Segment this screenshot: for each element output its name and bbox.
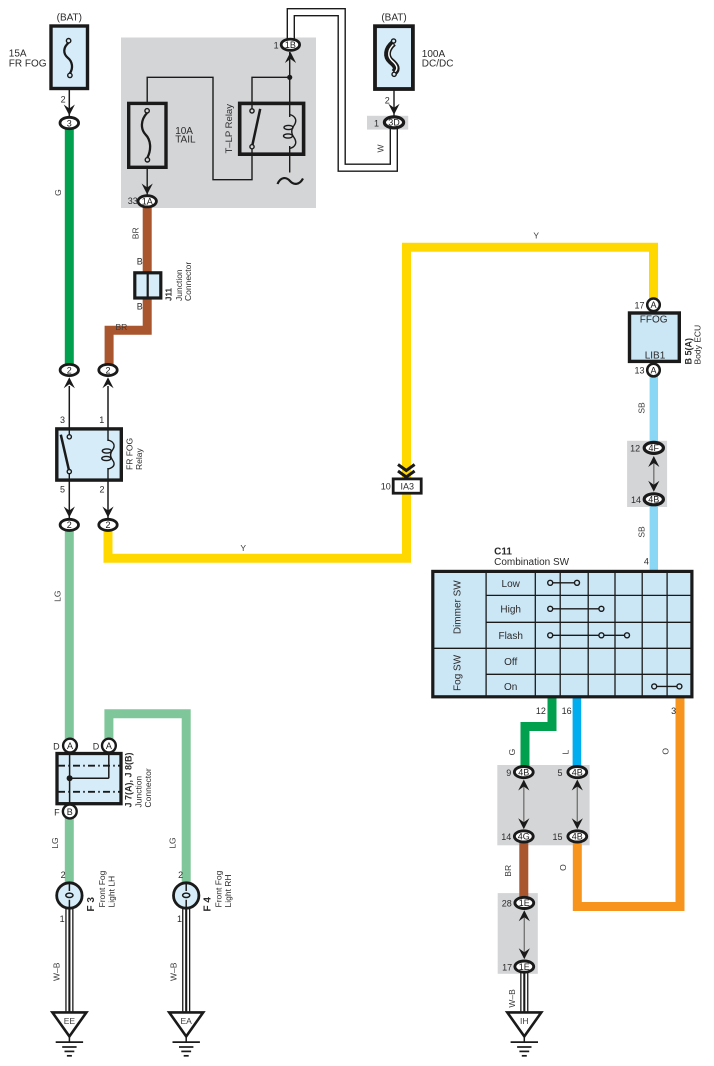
svg-text:L: L [560, 749, 570, 754]
svg-text:G: G [507, 749, 517, 756]
svg-text:FR FOG: FR FOG [124, 438, 134, 470]
circle A body ECU pin13 [647, 364, 660, 377]
svg-text:15: 15 [552, 832, 562, 842]
svg-text:BR: BR [131, 227, 141, 239]
svg-text:3: 3 [67, 118, 72, 128]
svg-text:3: 3 [60, 415, 65, 425]
arrow up to 1E pin28 [519, 910, 530, 921]
svg-text:1A: 1A [142, 197, 153, 207]
svg-text:1: 1 [177, 914, 182, 924]
svg-text:1B: 1B [285, 40, 296, 50]
connector oval 4B pin5 [568, 767, 587, 778]
svg-text:12: 12 [630, 444, 640, 454]
svg-text:2: 2 [99, 484, 104, 494]
wire: connector 4F-4B link [653, 460, 655, 488]
arrow up to 4B pin9 [518, 780, 529, 791]
svg-text:Relay: Relay [134, 448, 144, 470]
FR FOG relay switch [61, 428, 72, 480]
svg-text:B: B [137, 257, 143, 267]
fuse 10A TAIL box [129, 103, 166, 167]
svg-text:SB: SB [636, 526, 646, 538]
svg-text:B: B [67, 807, 73, 817]
svg-text:B: B [137, 302, 143, 312]
arrow below oval 2 green [64, 377, 75, 388]
wire G green: fuse 15A to FR FOG relay connector [65, 128, 74, 364]
svg-text:LG: LG [50, 837, 60, 848]
svg-text:Off: Off [504, 657, 517, 668]
svg-text:DC/DC: DC/DC [422, 59, 454, 70]
connector 1E/1E shading [498, 893, 538, 974]
svg-text:A: A [106, 741, 112, 751]
fusible link 100A DC/DC box [375, 26, 413, 89]
svg-text:12: 12 [536, 706, 546, 716]
svg-text:SB: SB [637, 402, 647, 414]
svg-text:16: 16 [562, 706, 572, 716]
svg-text:17: 17 [634, 300, 644, 310]
svg-text:1E: 1E [519, 962, 530, 972]
FR FOG relay coil [102, 428, 114, 480]
svg-text:9: 9 [506, 768, 511, 778]
T-LP relay switch [250, 109, 260, 149]
svg-text:T–LP Relay: T–LP Relay [224, 104, 235, 154]
svg-text:Dimmer SW: Dimmer SW [453, 580, 464, 634]
svg-text:1: 1 [274, 40, 279, 50]
wire: 100A DC/DC to connector 3D [393, 76, 395, 116]
connector oval 2 pin2 [99, 519, 117, 530]
svg-text:FR FOG: FR FOG [9, 59, 47, 70]
arrow down to 4B pin15 [572, 818, 583, 829]
connector oval 3 [60, 117, 79, 128]
svg-text:4B: 4B [518, 767, 529, 777]
svg-text:17: 17 [502, 962, 512, 972]
svg-text:13: 13 [634, 366, 644, 376]
svg-text:1E: 1E [519, 898, 530, 908]
combination SW dimmer high contacts [548, 606, 604, 611]
svg-text:2: 2 [67, 365, 72, 375]
svg-text:W–B: W–B [507, 989, 517, 1008]
connector oval 1E pin28 [515, 897, 534, 908]
svg-text:14: 14 [501, 832, 511, 842]
svg-text:3D: 3D [388, 118, 400, 128]
circle A junction J7 right [102, 739, 116, 753]
wire: junction down to T-LP relay coil [289, 77, 291, 117]
wire Y yellow: FR FOG relay pin2 to IA3 to body ECU [108, 247, 654, 558]
wire O orange: combination SW pin3 to 4B pin15 [577, 698, 680, 907]
svg-text:F 3: F 3 [86, 897, 97, 912]
combination switch table [433, 571, 692, 696]
connector oval 1A [138, 196, 156, 207]
svg-text:LG: LG [52, 591, 62, 602]
wire: connector 4B-4B link right [576, 784, 578, 825]
junction connector J11 [135, 273, 161, 298]
svg-text:F 4: F 4 [202, 897, 213, 912]
svg-text:BR: BR [115, 322, 127, 332]
svg-text:10: 10 [381, 482, 391, 492]
arrow below oval 2 brown [102, 377, 113, 388]
svg-text:J11: J11 [165, 288, 174, 301]
svg-text:Low: Low [502, 579, 521, 590]
circle A body ECU pin17 [647, 299, 660, 312]
connector oval 2 (brown) [99, 364, 117, 375]
wire SB sky blue: 4B to combination SW pin4 [650, 505, 658, 571]
wire: 10A TAIL fuse top to T-LP relay switch feed [147, 77, 252, 179]
svg-text:O: O [661, 748, 671, 755]
wire: fuse 15A FR FOG to connector 3 [68, 90, 70, 116]
connector oval 3D [384, 117, 403, 128]
circle B junction J7 bottom [63, 805, 77, 819]
svg-text:2: 2 [178, 870, 183, 880]
connector oval 1B [281, 39, 299, 50]
svg-text:Flash: Flash [498, 631, 522, 642]
FR FOG relay box [57, 429, 122, 480]
relay block shading (T-LP relay area) [121, 38, 316, 209]
wire G green: combination SW pin12 to 4B [525, 698, 552, 767]
connector oval 4G [514, 831, 533, 842]
svg-text:EE: EE [64, 1016, 76, 1026]
svg-text:Front Fog: Front Fog [97, 870, 107, 907]
wire W-B: front fog light LH to ground EE [65, 906, 73, 1013]
arrow up to 4B pin5 [572, 780, 583, 791]
svg-text:2: 2 [61, 94, 66, 104]
svg-text:A: A [650, 365, 656, 375]
circle A junction J7 left [63, 739, 77, 753]
svg-text:2: 2 [105, 520, 110, 530]
svg-text:2: 2 [385, 96, 390, 106]
body ECU box [630, 313, 680, 361]
connector oval 4B pin9 [514, 767, 533, 778]
svg-text:4B: 4B [572, 832, 583, 842]
svg-text:D: D [53, 741, 60, 751]
arrow into connector 3D [388, 104, 399, 115]
svg-text:J 7(A), J 8(B): J 7(A), J 8(B) [123, 752, 133, 807]
wire: FR FOG relay pin 2 to connector 2 [107, 480, 109, 519]
svg-text:Connector: Connector [143, 768, 153, 807]
wire BR brown: 1A to J11 to FR FOG relay connector [109, 206, 147, 364]
front fog light RH bulb F4 [174, 883, 199, 908]
wire W-B: 1E to ground IH [520, 972, 528, 1013]
wire: connector 4B-4G link left [523, 784, 525, 825]
arrow into connector 3 [64, 105, 75, 116]
connector oval 2 pin5 [60, 519, 78, 530]
connector oval 1E pin17 [515, 961, 534, 972]
svg-text:Connector: Connector [183, 262, 193, 301]
svg-text:Y: Y [533, 230, 539, 240]
svg-text:A: A [67, 741, 73, 751]
svg-text:IH: IH [520, 1016, 529, 1026]
svg-text:Junction: Junction [134, 776, 144, 808]
svg-text:BR: BR [503, 865, 513, 877]
junction connector J7(A) J8(B) box [57, 752, 121, 805]
svg-text:4G: 4G [518, 832, 530, 842]
fuse 15A FR FOG box [51, 26, 88, 89]
svg-text:Y: Y [240, 543, 246, 553]
svg-text:2: 2 [105, 365, 110, 375]
arrow down to 4G [518, 818, 529, 829]
svg-text:4B: 4B [572, 767, 583, 777]
arrow into connector 1A [142, 184, 153, 195]
arrow into connector 1B [285, 52, 296, 63]
connector IA3 box [393, 479, 421, 493]
svg-text:FFOG: FFOG [640, 315, 668, 326]
wire LG light green: J7 B to front fog light LH [65, 817, 74, 884]
wire: junction to 1B connector [289, 52, 291, 77]
arrow into connector 2 (pin2) [102, 507, 113, 518]
wire L blue: combination SW pin16 to 4B [573, 698, 582, 767]
wire W-B: front fog light RH to ground EA [182, 906, 190, 1013]
svg-text:14: 14 [631, 495, 641, 505]
front fog light LH bulb F3 [57, 883, 82, 908]
svg-text:4: 4 [644, 556, 649, 566]
fuse 10A TAIL element [142, 109, 150, 162]
svg-text:Fog SW: Fog SW [453, 654, 464, 691]
svg-text:W–B: W–B [52, 962, 62, 981]
svg-text:Front Fog: Front Fog [213, 870, 223, 907]
connector IA3 chevrons [398, 465, 415, 478]
svg-text:W: W [376, 144, 386, 152]
T-LP relay box [240, 103, 304, 154]
ground EE [52, 1012, 86, 1055]
svg-text:5: 5 [557, 768, 562, 778]
arrow down to 4B [648, 481, 659, 492]
svg-text:Body ECU: Body ECU [693, 325, 703, 365]
wire W white double line: 1B to 3D [291, 12, 394, 168]
connector oval 4B [644, 494, 663, 505]
svg-text:W–B: W–B [169, 962, 179, 981]
wire: T-LP relay coil to squiggle (tail light system) [289, 146, 291, 173]
connector oval 2 (green) [60, 364, 78, 375]
svg-text:F: F [54, 807, 60, 817]
T-LP relay coil [284, 115, 296, 149]
ground IH [507, 1012, 541, 1055]
svg-text:4F: 4F [649, 443, 660, 453]
connector oval 4F [644, 442, 663, 453]
svg-text:4B: 4B [648, 495, 659, 505]
connector 3D shading [367, 116, 408, 130]
svg-text:(BAT): (BAT) [57, 13, 82, 24]
svg-text:Combination SW: Combination SW [494, 557, 570, 568]
connector 4B/4G/4B/4B shading [497, 765, 589, 845]
svg-text:G: G [53, 189, 63, 196]
wire: connector 2 to FR FOG relay pin 3 [68, 386, 70, 428]
wire: T-LP relay switch to junction and 1B [252, 77, 290, 110]
combination SW dimmer low contacts [548, 580, 580, 585]
svg-text:TAIL: TAIL [175, 135, 196, 146]
node: junction dot [287, 75, 292, 80]
svg-text:C11: C11 [494, 547, 512, 558]
svg-text:Light LH: Light LH [106, 876, 116, 908]
svg-text:33: 33 [128, 196, 138, 206]
svg-text:1: 1 [60, 914, 65, 924]
svg-text:On: On [504, 682, 517, 693]
svg-text:A: A [650, 300, 656, 310]
wire LG light green: J7 A to front fog light RH [109, 714, 186, 884]
svg-text:Light RH: Light RH [223, 874, 233, 907]
arrow into connector 2 (pin5) [64, 507, 75, 518]
svg-text:5: 5 [60, 484, 65, 494]
svg-text:LIB1: LIB1 [645, 351, 666, 362]
svg-text:LG: LG [168, 837, 178, 848]
fusible link 100A DC/DC element [388, 39, 397, 77]
wire LG light green: relay pin5 to J7 connector A [65, 530, 74, 740]
svg-text:D: D [93, 741, 100, 751]
svg-text:2: 2 [67, 520, 72, 530]
svg-text:(BAT): (BAT) [381, 13, 406, 24]
squiggle: circuit continues [278, 178, 304, 184]
arrow down to 1E pin17 [519, 948, 530, 959]
connector 4F/4B shading [627, 441, 667, 507]
combination SW fog on contacts [652, 684, 682, 689]
wire: 10A TAIL fuse bottom to 1A connector [146, 161, 148, 195]
wire SB sky blue: body ECU pin13 to 4F [650, 376, 658, 442]
svg-text:28: 28 [502, 899, 512, 909]
wire: connector 2 to FR FOG relay pin 1 [107, 386, 109, 428]
svg-text:High: High [500, 604, 521, 615]
arrow up to 4F [648, 456, 659, 467]
wire BR brown: 4G to 1E [519, 841, 528, 898]
svg-text:3: 3 [671, 706, 676, 716]
svg-text:1: 1 [374, 119, 379, 129]
connector oval 4B pin15 [568, 831, 587, 842]
svg-text:IA3: IA3 [400, 482, 414, 492]
fuse 15A FR FOG element [64, 39, 72, 78]
combination SW dimmer flash contacts [548, 633, 630, 638]
svg-text:2: 2 [61, 870, 66, 880]
ground EA [169, 1012, 203, 1055]
wire: connector 1E-1E link [523, 914, 525, 953]
svg-text:EA: EA [181, 1016, 193, 1026]
svg-text:O: O [558, 864, 568, 871]
svg-text:1: 1 [99, 415, 104, 425]
wire: FR FOG relay pin 5 to connector 2 [68, 480, 70, 519]
